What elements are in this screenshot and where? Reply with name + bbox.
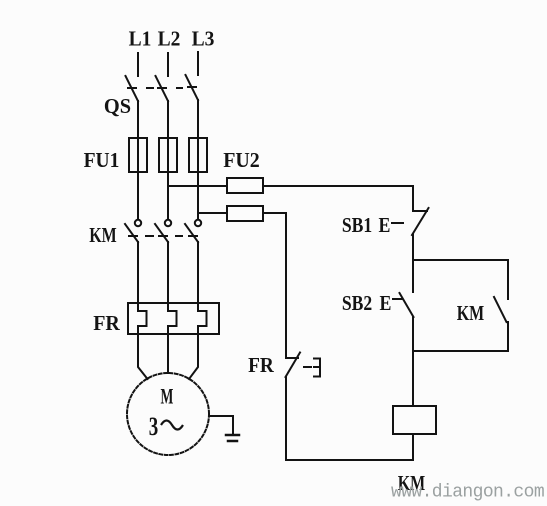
svg-text:SB2: SB2 bbox=[342, 293, 372, 316]
svg-text:E: E bbox=[379, 215, 391, 238]
svg-text:FR: FR bbox=[248, 354, 274, 377]
svg-text:www.diangon.com: www.diangon.com bbox=[391, 483, 544, 503]
svg-text:KM: KM bbox=[457, 302, 485, 326]
svg-text:FR: FR bbox=[93, 313, 120, 336]
svg-text:3: 3 bbox=[149, 412, 158, 441]
svg-text:FU1: FU1 bbox=[84, 149, 120, 172]
svg-text:L1: L1 bbox=[129, 28, 152, 51]
svg-text:FU2: FU2 bbox=[223, 150, 260, 173]
svg-text:L2: L2 bbox=[158, 28, 181, 51]
svg-text:M: M bbox=[161, 384, 174, 408]
svg-text:QS: QS bbox=[104, 96, 131, 118]
svg-text:E: E bbox=[380, 293, 392, 316]
svg-text:L3: L3 bbox=[192, 28, 215, 51]
svg-text:SB1: SB1 bbox=[342, 215, 372, 238]
svg-text:KM: KM bbox=[89, 224, 117, 248]
